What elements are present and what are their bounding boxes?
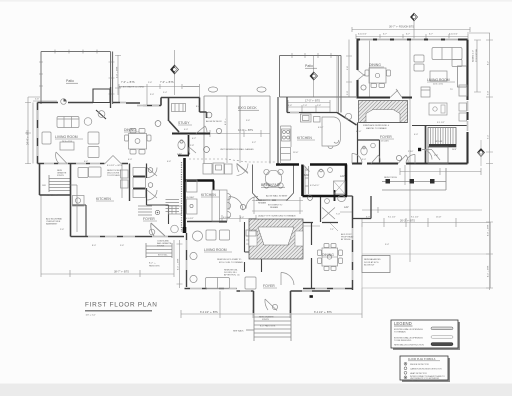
svg-text:8'-0 1/2" +- BTS: 8'-0 1/2" +- BTS	[200, 311, 218, 314]
built-ins right wall	[458, 66, 467, 87]
svg-text:UNIT SEPARATION WALL DASHED: UNIT SEPARATION WALL DASHED	[220, 148, 254, 151]
new mark below front wall	[310, 295, 313, 298]
left house left dim col x28	[25, 97, 40, 164]
svg-text:8'-2": 8'-2"	[488, 61, 490, 65]
lower living armchair round	[193, 231, 203, 241]
svg-text:6'-10": 6'-10"	[318, 127, 324, 129]
basement stair treads left	[49, 175, 70, 192]
leader line add post	[330, 223, 338, 231]
right house left wall	[356, 40, 358, 98]
diamond marker right dim col	[478, 149, 485, 157]
powder door right house	[371, 155, 380, 164]
patio edge wall	[110, 87, 112, 108]
dim col right of right house x477	[474, 40, 481, 92]
new wall lav1 bottom	[303, 195, 348, 198]
center kitchen island	[212, 190, 227, 221]
svg-text:LIVING ROOM: LIVING ROOM	[427, 78, 450, 82]
svg-text:1/4" = 1'-0": 1/4" = 1'-0"	[86, 315, 96, 317]
armchair left living c	[88, 147, 99, 158]
svg-text:4'-0": 4'-0"	[184, 129, 188, 131]
dim col far right x489.5	[467, 33, 493, 290]
svg-text:BREAKFAST: BREAKFAST	[261, 183, 281, 187]
legend box	[391, 320, 460, 350]
left house top left corner dim	[33, 100, 57, 102]
svg-text:COATS AND: COATS AND	[157, 240, 169, 243]
svg-text:3'-2": 3'-2"	[252, 142, 256, 144]
lower living sofa	[206, 278, 230, 289]
left house top dim chain	[119, 84, 200, 89]
piano top right living	[421, 87, 430, 97]
bottom left dim 38-7	[41, 195, 174, 277]
door swing left living bottom	[56, 152, 67, 164]
svg-text:9'-8": 9'-8"	[347, 66, 349, 70]
svg-text:2'-8": 2'-8"	[434, 155, 438, 157]
svg-text:7'-0" +- BTS: 7'-0" +- BTS	[121, 81, 135, 84]
patio right dim col	[336, 56, 338, 113]
svg-text:EX'G SILL: EX'G SILL	[158, 255, 168, 257]
svg-text:NEW BALANCED: NEW BALANCED	[364, 258, 381, 261]
north marker left center	[171, 65, 179, 74]
lower dining bottom wall	[303, 288, 353, 290]
circle marker breakfast left	[240, 204, 245, 209]
svg-text:BLOWOUT: BLOWOUT	[364, 265, 375, 267]
left house bottom wall y236.5	[71, 236, 185, 238]
windows top wall right house	[360, 38, 458, 40]
right kitchen top wall	[287, 97, 337, 113]
coffee table left living	[60, 142, 74, 150]
dims above right kitchen	[288, 100, 330, 113]
left patio ticks	[39, 50, 115, 95]
sofa top right living	[432, 48, 462, 60]
new wall blob lower	[183, 227, 187, 233]
patio top ticks	[292, 53, 331, 58]
circle marker near deck	[206, 112, 212, 118]
svg-text:DINING: DINING	[369, 63, 381, 67]
svg-text:14'-0" +- BTS: 14'-0" +- BTS	[238, 129, 253, 132]
porch dim	[400, 165, 481, 185]
svg-text:LAV: LAV	[177, 153, 182, 156]
svg-text:NEW GRANITE: NEW GRANITE	[259, 316, 274, 319]
windows right wall right house	[467, 101, 469, 131]
new wall bar right vert	[301, 165, 304, 197]
center kitchen door swing	[237, 164, 249, 176]
svg-text:20'4 x 15'0: 20'4 x 15'0	[433, 84, 444, 86]
svg-text:OVER AT SIDE: OVER AT SIDE	[46, 220, 61, 223]
svg-text:8'-0 1/2" +- BTS: 8'-0 1/2" +- BTS	[107, 165, 122, 167]
circle marker foyer left	[155, 210, 159, 214]
chimney circle decor	[98, 111, 105, 118]
fireplace white notch right	[295, 231, 303, 246]
fireplace white notch left	[249, 231, 257, 246]
svg-text:MANTEL TO REMAIN: MANTEL TO REMAIN	[366, 127, 387, 130]
svg-text:TO REMAIN: TO REMAIN	[394, 330, 406, 333]
unit separation dashed wall	[189, 159, 276, 162]
dim chain top right house	[352, 27, 470, 39]
svg-text:NEW PORCH: NEW PORCH	[384, 177, 397, 179]
lower living side tables	[190, 252, 197, 259]
see walk leader	[246, 329, 254, 331]
fireplace white center	[258, 227, 294, 245]
circle markers corridor	[148, 168, 153, 173]
svg-text:LAV: LAV	[344, 206, 349, 209]
lower wing bottom wall	[185, 288, 237, 290]
bar cabinetry	[305, 166, 309, 194]
svg-text:13'x13'6: 13'x13'6	[381, 141, 389, 143]
lower living chairs	[206, 230, 216, 240]
right house top wall	[357, 38, 468, 40]
left house top wall	[38, 98, 200, 106]
svg-text:4'-0 1/2": 4'-0 1/2"	[223, 217, 231, 219]
svg-text:7'-4": 7'-4"	[336, 214, 340, 216]
lower dining top wall	[303, 196, 371, 223]
right house bottom wall	[352, 162, 468, 164]
breakfast bay walls	[253, 165, 294, 201]
svg-text:FLOOR PLAN SYMBOLS: FLOOR PLAN SYMBOLS	[408, 358, 436, 361]
svg-text:5'-6": 5'-6"	[35, 99, 39, 101]
new balanced door box lower right	[362, 256, 390, 273]
svg-text:ADDED 4'-0": ADDED 4'-0"	[472, 50, 475, 62]
lower dining right wall	[352, 196, 354, 290]
lav1 shower box	[334, 181, 346, 194]
svg-text:2'-6": 2'-6"	[60, 229, 64, 231]
left house bottom wall y163.5	[38, 163, 129, 165]
breakfast dim lines	[252, 197, 303, 214]
svg-text:9'-1 1/2": 9'-1 1/2"	[437, 122, 445, 124]
stair closet	[428, 147, 448, 164]
svg-text:2'-6": 2'-6"	[148, 82, 152, 84]
svg-text:17'-0" +- BTS: 17'-0" +- BTS	[305, 100, 320, 103]
washer dryer left kitchen	[78, 168, 88, 178]
bottom wall door arc right house a	[352, 154, 362, 164]
svg-text:42'-0": 42'-0"	[356, 131, 362, 133]
circle marker right patio left	[361, 85, 366, 90]
study bottom wall dark	[172, 133, 210, 135]
dim stem north marker	[413, 21, 415, 39]
left foyer porch steps	[146, 243, 172, 258]
breakfast table	[265, 170, 281, 186]
vestibule	[237, 291, 331, 313]
dining bottom wall right house	[357, 96, 413, 98]
svg-text:6'-0" +- BTS: 6'-0" +- BTS	[117, 66, 119, 78]
svg-text:LIVING ROOM: LIVING ROOM	[55, 135, 78, 139]
dim guides right house top	[370, 40, 411, 262]
new wall bar left	[310, 163, 347, 166]
study lav toilet	[178, 141, 185, 150]
lower fireplace hatched mass	[249, 219, 303, 259]
windows left house bottom	[44, 163, 100, 165]
svg-text:ALIGN W/ DECK: ALIGN W/ DECK	[206, 120, 222, 123]
right kitchen island	[322, 117, 341, 146]
svg-text:QUALITY F.P. SURROUND TO REMAI: QUALITY F.P. SURROUND TO REMAIN	[258, 215, 296, 218]
dining table left house	[129, 134, 147, 150]
left house left wall	[37, 103, 39, 164]
lower living left wall	[186, 233, 188, 287]
svg-text:4'-6": 4'-6"	[288, 105, 292, 107]
svg-text:8'-4 1/2" +- BTS: 8'-4 1/2" +- BTS	[314, 311, 332, 314]
lower wing living top wall	[187, 221, 219, 223]
powder room walls right house	[358, 123, 380, 164]
dim col between patio and house x349	[346, 40, 352, 98]
svg-text:EX'G CLUB. TO REMAIN: EX'G CLUB. TO REMAIN	[219, 261, 243, 264]
svg-text:8'-4" +- BTS: 8'-4" +- BTS	[178, 258, 180, 270]
dining opening door top right house	[390, 89, 402, 98]
oval marker pair deck top	[208, 87, 217, 92]
study door	[196, 126, 207, 134]
study lav door	[189, 147, 196, 154]
right kitchen dw	[314, 117, 321, 123]
circle marker study area e	[216, 128, 221, 133]
left dim chain guides	[119, 50, 200, 105]
svg-text:8'-0": 8'-0"	[196, 106, 200, 108]
exg deck outline	[204, 96, 270, 164]
svg-text:2'-10": 2'-10"	[408, 151, 414, 153]
svg-text:7'-1": 7'-1"	[330, 229, 334, 231]
svg-text:EX'G HEAT TO: EX'G HEAT TO	[256, 199, 270, 202]
dining table top right house	[369, 68, 386, 83]
left wall door right house	[358, 70, 366, 80]
butler pantry counters	[429, 103, 447, 115]
svg-text:6'-9": 6'-9"	[366, 217, 370, 219]
powder toilet right house	[361, 147, 367, 155]
coffee table top right living	[430, 71, 447, 81]
svg-text:8'-0": 8'-0"	[92, 245, 96, 247]
hearth line	[359, 122, 408, 124]
round table left living	[84, 118, 92, 126]
svg-text:5x5 BIG WATER CLOSING: 5x5 BIG WATER CLOSING	[119, 86, 145, 89]
hall door arcs	[406, 150, 432, 164]
svg-text:SEE WALK: SEE WALK	[233, 330, 244, 333]
lower living top dims	[219, 215, 256, 222]
floor plan symbols box	[400, 356, 450, 382]
left kitchen cabinets right	[121, 170, 129, 178]
svg-text:LEGEND: LEGEND	[394, 321, 412, 326]
hall door arcs lower wing	[229, 197, 258, 211]
svg-text:6'-9"x3'-1": 6'-9"x3'-1"	[310, 185, 320, 187]
left kitchen right wall	[129, 164, 131, 202]
svg-text:KITCHEN: KITCHEN	[297, 136, 312, 140]
circle marker deck lower	[204, 147, 210, 153]
svg-text:NEW WALLS/CONSTRUCTION: NEW WALLS/CONSTRUCTION	[394, 343, 424, 346]
svg-text:SMOKE DETECTOR: SMOKE DETECTOR	[410, 364, 429, 366]
svg-text:5'-0": 5'-0"	[488, 91, 490, 95]
lower dining table	[322, 248, 338, 266]
right kitchen stove	[282, 129, 291, 141]
new wall center kitchen jog	[213, 181, 215, 191]
lav1 toilet	[318, 170, 324, 178]
window right kitchen	[290, 112, 299, 114]
svg-text:EXISTING WALLS/OPENINGS: EXISTING WALLS/OPENINGS	[394, 328, 423, 331]
top margin faint band	[0, 0, 512, 2]
new wall lav1 right	[345, 165, 348, 197]
svg-text:OF BLDG: OF BLDG	[410, 380, 419, 382]
svg-text:24'4 x 15'6: 24'4 x 15'6	[62, 141, 73, 143]
bottom dim line y314	[181, 288, 362, 318]
armchair left living b	[88, 132, 99, 144]
svg-text:REMAIN: REMAIN	[258, 202, 267, 205]
svg-text:5'-4": 5'-4"	[163, 92, 167, 94]
svg-text:AT RIDGE: AT RIDGE	[341, 238, 351, 241]
svg-text:ADD BULKHEAD: ADD BULKHEAD	[46, 218, 63, 221]
window left house top	[120, 103, 159, 106]
bottom wall door arc right house b	[398, 155, 408, 164]
north marker right house	[411, 13, 418, 21]
svg-text:REMOVE EX'G STAIR TO: REMOVE EX'G STAIR TO	[217, 258, 242, 261]
svg-text:6'-7": 6'-7"	[429, 34, 433, 36]
right kitchen sink counter	[301, 114, 312, 122]
windows lower living left	[186, 240, 188, 270]
svg-text:CARBON MONOXIDE DETECTOR: CARBON MONOXIDE DETECTOR	[410, 367, 442, 370]
fireplace surround hatch right house	[359, 101, 408, 123]
svg-text:BAG GRANITE: BAG GRANITE	[157, 242, 172, 245]
bar door diag	[303, 165, 310, 172]
svg-text:LIVING ROOM: LIVING ROOM	[204, 248, 227, 252]
svg-text:6'-7": 6'-7"	[406, 34, 410, 36]
porch lines right house	[382, 168, 446, 190]
windows lower wing bottom	[190, 288, 236, 290]
svg-text:9'-4": 9'-4"	[488, 135, 490, 139]
svg-text:ALIGN WALL W/ BENT: ALIGN WALL W/ BENT	[266, 195, 288, 198]
lower living top dark segment	[219, 221, 227, 223]
front entry steps lower wing	[254, 313, 291, 341]
left patio outline	[41, 52, 111, 105]
svg-text:5'-0": 5'-0"	[362, 159, 366, 161]
svg-text:Patio: Patio	[305, 64, 313, 68]
svg-text:38'-7" +- BTS: 38'-7" +- BTS	[114, 271, 129, 274]
corridor wall x146.5	[146, 164, 148, 206]
left kitchen sink box	[73, 196, 85, 207]
right patio inner edge	[338, 56, 340, 113]
closet shelves	[246, 236, 260, 244]
svg-text:26'-3" +- BTS: 26'-3" +- BTS	[400, 220, 415, 223]
svg-text:9'-1 1/2": 9'-1 1/2"	[411, 217, 419, 219]
center kitchen left counters	[187, 180, 198, 192]
svg-text:8'-2" +-: 8'-2" +-	[149, 263, 156, 265]
svg-text:FIRST FLOOR PLAN: FIRST FLOOR PLAN	[85, 302, 158, 309]
right kitchen fridge	[281, 148, 291, 161]
svg-text:EXISTING WALLS/OPENINGS: EXISTING WALLS/OPENINGS	[394, 337, 423, 340]
right kitchen diagonal wall	[337, 113, 357, 126]
svg-text:GRANITE: GRANITE	[57, 172, 67, 175]
svg-text:STUDY: STUDY	[178, 121, 190, 125]
corridor doors	[147, 168, 157, 201]
ex deck inner dim	[204, 96, 270, 163]
lav2 toilet	[338, 196, 346, 202]
bottom margin band	[0, 384, 512, 396]
svg-text:PROP HEAD: PROP HEAD	[341, 236, 354, 239]
window front vestibule	[240, 290, 312, 292]
svg-text:9'-1 1/2": 9'-1 1/2"	[388, 217, 396, 219]
svg-text:6'-0": 6'-0"	[128, 159, 132, 161]
svg-text:6'-10 1/2": 6'-10 1/2"	[358, 34, 367, 36]
stair top boundary	[412, 125, 468, 127]
svg-text:5'-6": 5'-6"	[120, 245, 124, 247]
svg-text:FOYER: FOYER	[143, 217, 155, 221]
mantel cutout	[366, 110, 400, 123]
center kitchen island chairs	[228, 194, 231, 218]
svg-text:EX'G DECK: EX'G DECK	[238, 106, 257, 110]
svg-text:CLOSET: CLOSET	[186, 197, 195, 199]
windows left house lower	[88, 236, 168, 238]
svg-text:4'-0 1/2": 4'-0 1/2"	[186, 218, 194, 220]
dining chairs left house	[130, 129, 136, 134]
patio north stem	[313, 56, 315, 98]
circle marker lav2	[308, 196, 313, 201]
svg-text:4'-6": 4'-6"	[167, 161, 171, 163]
svg-text:TO EXISTING: TO EXISTING	[476, 48, 478, 62]
svg-text:Patio: Patio	[66, 79, 74, 83]
title first floor plan	[85, 302, 158, 317]
closet column lower wing	[245, 222, 262, 272]
porch posts	[386, 179, 391, 184]
foyer lower door arc	[281, 272, 294, 285]
svg-text:KITCHEN: KITCHEN	[96, 197, 111, 201]
chimney bay living room	[93, 89, 110, 119]
svg-text:STEPS: STEPS	[262, 319, 269, 321]
left patio dim col x118	[115, 55, 121, 95]
svg-text:3'-0": 3'-0"	[150, 94, 154, 96]
svg-text:4'-6": 4'-6"	[240, 217, 244, 219]
study lav walls	[178, 135, 189, 156]
lower living console	[246, 230, 256, 236]
center stair lower flight	[138, 206, 152, 215]
new wall center kitchen left	[183, 158, 186, 233]
lower living left dim col	[177, 240, 183, 288]
left patio right double edge	[112, 52, 114, 105]
svg-text:7'-0" +- BTS: 7'-0" +- BTS	[46, 195, 58, 197]
double doors to kitchen	[105, 156, 121, 164]
left lower room walls	[40, 164, 71, 237]
svg-text:LAV: LAV	[340, 175, 345, 178]
svg-text:15'-8": 15'-8"	[436, 217, 442, 219]
right house right wall	[466, 40, 468, 164]
svg-text:9'-4": 9'-4"	[385, 244, 389, 246]
svg-text:BAR: BAR	[304, 174, 309, 177]
circle marker foyer right house	[396, 155, 401, 160]
left foyer closet	[169, 206, 182, 214]
svg-text:7'-0": 7'-0"	[303, 105, 307, 107]
right kitchen left counter	[281, 126, 292, 164]
new wall kitchen bottom right house	[276, 163, 299, 166]
svg-text:TO BE REMOVED: TO BE REMOVED	[394, 340, 412, 342]
stairs right house	[406, 66, 467, 164]
svg-text:UP 14R: UP 14R	[435, 141, 443, 143]
dining left wall lower	[311, 223, 313, 289]
powder sink right house	[371, 143, 376, 148]
svg-text:REMAIN: REMAIN	[270, 206, 279, 209]
svg-text:9'-6": 9'-6"	[246, 120, 250, 122]
svg-text:FIREPLACE SURROUND &: FIREPLACE SURROUND &	[363, 124, 390, 127]
lav2 dims	[300, 212, 352, 226]
new wall center kitchen top	[185, 179, 215, 182]
svg-text:7'-0" +- BTS: 7'-0" +- BTS	[160, 81, 174, 84]
north marker right patio	[310, 72, 318, 80]
right kitchen left edge	[277, 97, 279, 164]
svg-text:AFTER FDN. I.D.: AFTER FDN. I.D.	[224, 274, 240, 277]
windows left house left wall	[37, 110, 39, 156]
svg-text:8'-0" +-: 8'-0" +-	[225, 118, 227, 125]
lav2 doors X	[322, 208, 335, 220]
window breakfast bay	[262, 199, 286, 201]
vestibule door	[265, 299, 277, 311]
study closet	[172, 104, 186, 112]
svg-text:KITCHEN: KITCHEN	[201, 193, 216, 197]
svg-text:4'-2": 4'-2"	[192, 138, 196, 140]
tv unit	[459, 85, 467, 96]
svg-text:4'-0": 4'-0"	[414, 134, 418, 136]
right deck dims	[362, 207, 491, 227]
svg-text:13'-6": 13'-6"	[293, 152, 299, 154]
svg-text:6'-7": 6'-7"	[383, 34, 387, 36]
